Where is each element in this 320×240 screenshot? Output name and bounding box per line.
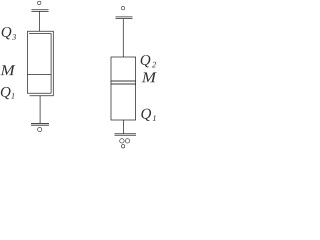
box Q2 (right stack upper cell)	[111, 57, 136, 81]
label Q2 (right stack top)	[141, 55, 151, 67]
terminal T1 (top of left stack, open circle)	[37, 1, 41, 5]
divider between M and Q1 cells (left stack)	[28, 74, 52, 76]
box M/Q1 (left stack front rectangle)	[28, 31, 52, 93]
box Q1 (right stack lower cell)	[111, 84, 136, 120]
wire (bottom lead of left stack)	[39, 96, 41, 123]
node D (double bar, bottom of right stack)	[115, 134, 137, 136]
label Q1 (left stack bottom)	[1, 87, 11, 99]
wire (top lead of left stack)	[39, 11, 41, 31]
label Q3 (left stack top)	[2, 27, 12, 39]
node C (double bar, top of right stack)	[116, 17, 133, 19]
box Q3 (left stack outer/offset rectangle)	[27, 31, 53, 96]
label M (right stack middle)	[142, 72, 157, 82]
terminal T4 (bottom of right stack, circle pair)	[120, 139, 124, 143]
wire (top lead of right stack)	[122, 19, 124, 57]
node A (double bar, top of left stack)	[32, 10, 49, 12]
terminal T3 (top of right stack, open circle)	[121, 6, 125, 10]
label Q1 (right stack bottom)	[141, 109, 151, 121]
node B (double bar, bottom of left stack)	[31, 123, 49, 125]
wire (bottom lead of right stack)	[123, 120, 125, 134]
label M (left stack middle)	[0, 65, 15, 75]
box M (right stack thin middle cell)	[111, 81, 136, 84]
terminal T5 (small circle below pair)	[121, 145, 124, 148]
terminal T2 (bottom of left stack, open circle)	[38, 127, 42, 131]
